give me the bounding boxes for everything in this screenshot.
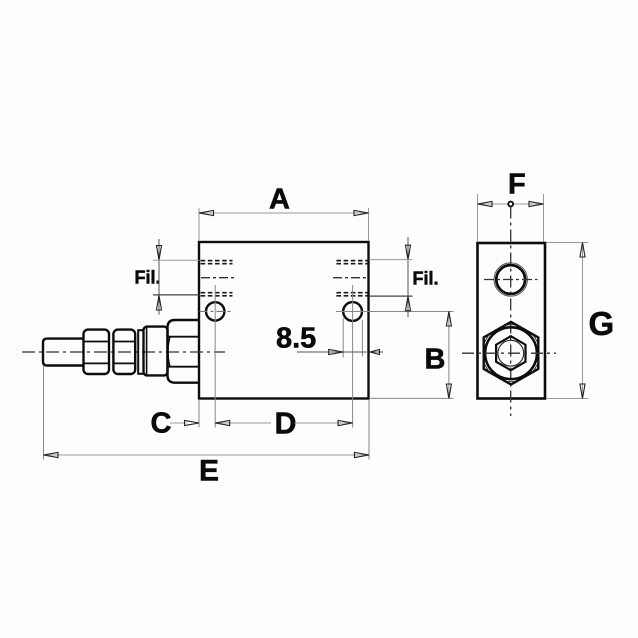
hex facet arc upper xyxy=(168,337,170,367)
B bottom arrow xyxy=(446,384,451,399)
E right extension xyxy=(368,400,370,460)
B top arrow xyxy=(446,312,451,327)
left hole horizontal centerline xyxy=(200,310,234,312)
svg-text:C: C xyxy=(151,408,172,440)
Fil. right top extension xyxy=(369,259,413,261)
svg-text:F: F xyxy=(508,169,526,201)
cap bushing xyxy=(144,327,168,376)
svg-text:E: E xyxy=(199,454,219,487)
C tail line xyxy=(170,422,187,424)
valve body block xyxy=(199,242,369,399)
end view body rectangle xyxy=(478,243,546,399)
G top extension xyxy=(547,242,589,244)
B bottom extension xyxy=(370,397,454,399)
svg-text:G: G xyxy=(589,305,615,342)
D dimension line left part xyxy=(215,422,271,424)
top port bore circle xyxy=(496,265,525,294)
Fil. left bottom arrow xyxy=(156,296,161,311)
svg-text:A: A xyxy=(269,184,290,216)
C arrow xyxy=(185,420,200,425)
8.5 right arrow xyxy=(370,350,380,355)
svg-text:8.5: 8.5 xyxy=(276,323,316,355)
inner hex socket xyxy=(496,336,525,370)
A arrow left xyxy=(199,210,214,215)
left hole vertical centerline xyxy=(214,285,216,428)
G bottom extension xyxy=(547,398,589,400)
hex chamfer arcs xyxy=(483,325,540,382)
right port thread dashed lines xyxy=(336,261,367,296)
Fil. right bottom arrow xyxy=(405,296,410,311)
Fil. left top extension xyxy=(153,259,200,261)
stem centerline xyxy=(22,351,225,353)
F center node circle xyxy=(508,202,513,207)
E right arrow xyxy=(355,452,370,457)
cartridge hex (side view) xyxy=(168,320,200,383)
left port centerline xyxy=(201,277,236,279)
Fil. left dim line xyxy=(158,239,160,315)
B dimension line xyxy=(448,312,450,399)
right mounting hole xyxy=(343,302,362,321)
right hole horizontal centerline + B top extension xyxy=(336,311,454,313)
left mounting hole xyxy=(206,302,224,320)
G bottom arrow xyxy=(580,384,585,399)
F dimension line xyxy=(478,203,544,205)
svg-text:Fil.: Fil. xyxy=(135,268,161,288)
A dimension line xyxy=(199,212,369,214)
svg-text:B: B xyxy=(425,344,446,376)
cartridge hex nut (end view) xyxy=(484,322,539,385)
left port thread dashed lines xyxy=(201,261,233,296)
threaded adjustment rod xyxy=(43,339,84,366)
washer xyxy=(138,330,143,374)
E left extension xyxy=(43,366,45,460)
8.5 left arrow xyxy=(329,349,344,354)
top port thread thin circle xyxy=(494,263,527,296)
C extension (block left edge) xyxy=(198,400,200,428)
E dimension line xyxy=(44,454,370,456)
8.5 left tangent extension xyxy=(342,318,344,358)
A arrow right xyxy=(354,210,369,215)
A extension line right xyxy=(368,208,370,241)
hex facet line upper xyxy=(168,336,199,338)
8.5 right arrow tail xyxy=(370,351,384,353)
cartridge body circle xyxy=(485,327,537,379)
top port horizontal centerline xyxy=(484,279,538,281)
Fil. left top arrow xyxy=(156,246,161,261)
F right arrow xyxy=(529,201,544,206)
D left arrow xyxy=(215,420,230,425)
Fil. right bottom extension xyxy=(369,295,413,297)
F left extension xyxy=(477,194,479,242)
A extension line left xyxy=(198,208,200,241)
jam nut 1 xyxy=(84,330,110,374)
jam nut 2 xyxy=(113,330,135,374)
Fil. right top arrow xyxy=(405,245,410,260)
G dimension line xyxy=(582,243,584,399)
Fil. left bottom extension xyxy=(153,294,200,296)
8.5 right tangent extension xyxy=(361,320,363,357)
E left arrow xyxy=(44,452,59,457)
right port centerline xyxy=(333,277,368,279)
G top arrow xyxy=(580,243,585,258)
D right arrow xyxy=(338,420,353,425)
nut 2 facet lines xyxy=(114,341,134,343)
F right extension xyxy=(543,194,545,242)
right hole vertical centerline xyxy=(352,285,354,428)
8.5 dimension line xyxy=(297,351,367,353)
vertical centerline xyxy=(510,207,512,417)
F left arrow xyxy=(478,201,493,206)
hex horizontal centerline xyxy=(462,352,556,354)
inner circle xyxy=(498,340,524,366)
nut 1 facet lines xyxy=(85,341,109,343)
D dimension line right part xyxy=(295,422,353,424)
cap inner edge line xyxy=(146,328,148,375)
svg-text:D: D xyxy=(275,407,297,441)
svg-text:Fil.: Fil. xyxy=(413,269,439,289)
Fil. right dim line xyxy=(407,237,409,317)
hex facet line lower xyxy=(168,366,199,368)
